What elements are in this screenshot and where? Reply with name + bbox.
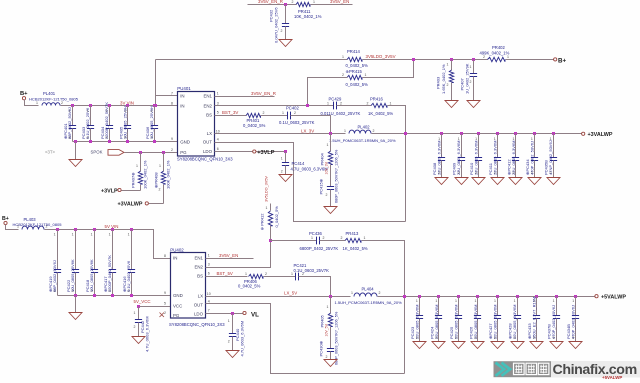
watermark badge gray: [494, 361, 552, 377]
svg-text:2: 2: [281, 29, 283, 33]
junction lower output cap top: [457, 295, 460, 298]
svg-text:0_0402_5%: 0_0402_5%: [346, 63, 369, 68]
svg-text:BS: BS: [197, 274, 203, 279]
svg-text:5V_VCC: 5V_VCC: [134, 299, 151, 304]
svg-text:2: 2: [106, 135, 108, 139]
svg-text:1: 1: [327, 101, 329, 105]
svg-text:+3VLP: +3VLP: [101, 188, 118, 194]
capacitor PC422 wire top: [75, 230, 77, 270]
capacitor PC434 wire bottom: [534, 161, 536, 178]
svg-text:1: 1: [327, 305, 329, 309]
capacitor PC415 plates: [327, 187, 334, 190]
svg-text:1: 1: [416, 299, 418, 303]
junction lower output cap top: [476, 295, 479, 298]
svg-text:BS: BS: [206, 113, 212, 118]
junction output cap top: [552, 132, 555, 135]
junction gnd bus: [108, 140, 111, 143]
svg-text:3: 3: [208, 263, 210, 267]
junction lower gnd bus: [74, 294, 77, 297]
svg-text:B+: B+: [20, 91, 28, 97]
capacitor PC433: [533, 316, 540, 319]
wire PC421 to LX node lower: [299, 277, 331, 297]
wire EN1 PU401: [215, 96, 275, 98]
capacitor PC403: [87, 126, 94, 129]
svg-text:10: 10: [207, 292, 211, 296]
junction PR408 top: [162, 151, 165, 154]
junction gnd bus: [126, 140, 129, 143]
svg-text:1: 1: [36, 101, 38, 105]
svg-text:470P_0402_50V6J: 470P_0402_50V6J: [551, 305, 556, 339]
svg-text:2: 2: [514, 336, 516, 340]
capacitor PC435B: [550, 158, 557, 161]
capacitor PC408 wire top: [441, 134, 443, 158]
svg-text:5: 5: [217, 111, 219, 115]
svg-text:1: 1: [514, 299, 516, 303]
svg-text:LX: LX: [198, 294, 203, 299]
svg-text:HCB2012KF-121T50_0805: HCB2012KF-121T50_0805: [29, 97, 79, 102]
ground PC440: [226, 351, 239, 358]
capacitor PC434B wire bottom: [575, 319, 577, 342]
capacitor PC417: [109, 270, 116, 273]
wire LX PU402 to PL404: [206, 296, 351, 298]
capacitor PC423: [416, 316, 423, 319]
svg-text:1K_0402_5%: 1K_0402_5%: [343, 246, 368, 251]
capacitor PC424 wire top: [438, 297, 440, 316]
svg-text:22U_0805_6.3V6M: 22U_0805_6.3V6M: [437, 141, 442, 175]
svg-text:1: 1: [128, 233, 130, 237]
svg-text:2200P_0402_50V7K: 2200P_0402_50V7K: [107, 255, 112, 292]
svg-text:IN: IN: [180, 104, 184, 109]
wire OUT loop PU402: [206, 304, 405, 374]
svg-text:2: 2: [323, 236, 325, 240]
wire EN2 PU401 feedback: [215, 105, 334, 107]
svg-text:2: 2: [263, 111, 265, 115]
svg-text:1: 1: [87, 109, 89, 113]
capacitor PC434B wire top: [575, 297, 577, 316]
terminal circle +3VALWP left: [145, 202, 148, 205]
resistor PR406: [249, 274, 264, 278]
capacitor PC412 wire top: [515, 134, 517, 158]
terminal circle VL: [243, 311, 246, 314]
watermark panel light: [551, 361, 640, 378]
wire 5VALWP output bus: [378, 296, 596, 298]
capacitor PC416: [128, 270, 135, 273]
capacitor PC436 plates: [317, 237, 320, 245]
capacitor PC426: [474, 316, 481, 319]
capacitor PC401 wire top: [72, 106, 74, 126]
capacitor PC426 wire bottom: [477, 319, 479, 342]
ground PC412: [509, 178, 522, 185]
capacitor PC419 wire bottom: [57, 273, 59, 296]
capacitor PC408 wire bottom: [441, 161, 443, 178]
resistor PR405: [328, 313, 332, 327]
junction output cap top: [496, 132, 499, 135]
svg-text:1: 1: [124, 109, 126, 113]
svg-text:1: 1: [136, 164, 138, 168]
svg-text:8: 8: [164, 254, 166, 258]
svg-text:2: 2: [326, 355, 328, 359]
junction lower gnd bus: [93, 294, 96, 297]
wire OUT loop PU401: [215, 143, 406, 222]
wire bus down to IN: [155, 60, 157, 106]
wire top bus left segment: [156, 59, 348, 61]
resistor PR412: [268, 211, 272, 226]
wire PC414 bottom: [285, 166, 287, 175]
ground PC410: [472, 178, 485, 185]
junction lower input cap top: [111, 228, 114, 231]
capacitor PC401: [69, 126, 76, 129]
svg-text:2: 2: [124, 135, 126, 139]
ground PC409: [455, 178, 468, 185]
svg-text:1: 1: [69, 109, 71, 113]
svg-text:2: 2: [87, 135, 89, 139]
svg-text:22U_0805_6.3V6M: 22U_0805_6.3V6M: [434, 305, 439, 339]
capacitor PC435B wire top: [553, 134, 555, 158]
svg-text:PR413: PR413: [346, 231, 359, 236]
svg-text:2: 2: [109, 289, 111, 293]
terminal circle +5VALWP: [595, 295, 598, 298]
svg-text:1: 1: [550, 137, 552, 141]
wire PC432 bottom: [285, 27, 287, 40]
svg-text:100K_0402_1%: 100K_0402_1%: [143, 160, 148, 189]
wire PC442 top: [138, 307, 140, 320]
wire 5V VIN bus to IN: [45, 230, 171, 259]
svg-text:+3VALWP: +3VALWP: [588, 132, 613, 138]
svg-text:PR414: PR414: [347, 49, 360, 54]
svg-text:2: 2: [475, 171, 477, 175]
wire BS PU401: [215, 115, 247, 117]
svg-text:2: 2: [265, 272, 267, 276]
svg-text:PU401: PU401: [177, 86, 191, 91]
junction lower input cap top: [56, 228, 59, 231]
wire PR413 to output node: [362, 241, 405, 374]
ground PC433: [530, 342, 543, 349]
junction lower output cap top: [535, 295, 538, 298]
svg-text:1: 1: [313, 0, 315, 4]
svg-text:0.047U_0402_25V6: 0.047U_0402_25V6: [274, 7, 279, 43]
svg-text:BST_5V: BST_5V: [217, 271, 233, 276]
terminal circle B+ bottom: [4, 221, 7, 224]
wire PC429 to PR416: [337, 105, 372, 107]
svg-text:2: 2: [533, 336, 535, 340]
svg-text:88P_0402_50V6J: 88P_0402_50V6J: [52, 260, 57, 292]
svg-text:2: 2: [326, 193, 328, 197]
capacitor PC412: [512, 158, 519, 161]
wire PR403 bottom: [451, 83, 453, 101]
capacitor PC406: [151, 126, 158, 129]
watermark chevron: [496, 363, 505, 376]
svg-text:680P_0603_50V7K7_1206_5%: 680P_0603_50V7K7_1206_5%: [335, 149, 339, 203]
svg-text:2: 2: [455, 336, 457, 340]
svg-text:0_0402_5%: 0_0402_5%: [243, 123, 266, 128]
port SPOK: [108, 150, 124, 156]
svg-text:0_0402_5%: 0_0402_5%: [238, 283, 261, 288]
svg-text:IN: IN: [173, 256, 177, 261]
svg-text:2: 2: [379, 291, 381, 295]
svg-text:2: 2: [483, 55, 485, 59]
svg-text:SY8208BCQNC_QFN10_3X3: SY8208BCQNC_QFN10_3X3: [169, 322, 225, 327]
resistor PR414 body: [347, 57, 362, 61]
svg-text:2: 2: [151, 135, 153, 139]
svg-text:680P_0603_50V7K7_1206_5%: 680P_0603_50V7K7_1206_5%: [335, 311, 339, 365]
wire snubber lower mid: [330, 327, 332, 349]
capacitor PC434: [531, 158, 538, 161]
svg-text:1: 1: [364, 236, 366, 240]
svg-text:1: 1: [311, 236, 313, 240]
junction input cap PC401 top: [71, 104, 74, 107]
wire 3VALWP output bus: [372, 133, 582, 135]
capacitor PC406 wire top: [154, 106, 156, 126]
wire PR402 to B+: [506, 59, 554, 61]
op-amp U2 regulator PU402: [171, 253, 206, 319]
svg-text:1: 1: [455, 299, 457, 303]
ground PC434B: [569, 342, 582, 349]
svg-text:2: 2: [367, 101, 369, 105]
junction lower input cap top: [93, 228, 96, 231]
wire 3V5V_EN_R to PR411: [248, 4, 297, 6]
capacitor PC418 wire bottom: [94, 273, 96, 296]
svg-text:⊕PR415: ⊕PR415: [346, 69, 363, 74]
svg-text:100K_0402_1%: 100K_0402_1%: [166, 160, 171, 189]
ground PC427: [491, 342, 504, 349]
wire snubber top: [330, 134, 332, 152]
capacitor PC427: [494, 316, 501, 319]
svg-text:7: 7: [171, 91, 173, 95]
capacitor PC405 wire bottom: [127, 129, 129, 142]
ground PC407: [467, 101, 480, 108]
wire to lower ground: [75, 296, 77, 313]
svg-text:2: 2: [438, 171, 440, 175]
capacitor PC409 wire bottom: [461, 161, 463, 178]
capacitor PC435B wire bottom: [553, 161, 555, 178]
capacitor PC429 plates: [334, 102, 337, 110]
ground PC411: [491, 178, 504, 185]
inductor PL401: [42, 103, 60, 106]
junction lower output cap top: [555, 295, 558, 298]
svg-text:VL: VL: [251, 311, 259, 318]
svg-text:<3T>: <3T>: [45, 150, 56, 155]
svg-text:0_0402_5%: 0_0402_5%: [346, 82, 369, 87]
svg-text:2: 2: [494, 171, 496, 175]
inductor PL403: [22, 226, 44, 229]
wire LDO PU401: [215, 151, 286, 153]
wire PC440 bottom: [232, 337, 234, 351]
svg-text:470P_0402_50V6J: 470P_0402_50V6J: [529, 141, 534, 175]
wire BS PU402: [206, 276, 248, 278]
svg-text:PU402: PU402: [170, 248, 184, 253]
wire PR407 bottom: [140, 185, 142, 191]
svg-text:LX_5V: LX_5V: [284, 291, 297, 296]
svg-text:B+: B+: [2, 216, 9, 222]
svg-text:2: 2: [550, 171, 552, 175]
junction PR407 top: [139, 151, 142, 154]
svg-text:2: 2: [340, 101, 342, 105]
capacitor PC405 wire top: [127, 106, 129, 126]
resistor PR408: [161, 171, 165, 184]
wire snubber bottom: [330, 190, 332, 207]
svg-text:PL404: PL404: [362, 287, 375, 292]
svg-text:+5VALWP: +5VALWP: [602, 375, 622, 380]
capacitor PC404: [106, 126, 113, 129]
ground PR403: [445, 101, 458, 108]
capacitor PC409 wire top: [461, 134, 463, 158]
capacitor PC430 plates: [327, 349, 334, 352]
capacitor PC428: [514, 316, 521, 319]
svg-text:3V5V_EN_R: 3V5V_EN_R: [251, 91, 276, 96]
capacitor PC423 wire top: [419, 297, 421, 316]
wire EN1 PU402: [206, 258, 254, 260]
svg-text:PR416: PR416: [370, 96, 383, 101]
svg-text:2: 2: [69, 135, 71, 139]
wire PC407 bottom: [473, 77, 475, 101]
junction input cap PC406 top: [153, 104, 156, 107]
svg-text:1.65K_0402_1%: 1.65K_0402_1%: [441, 64, 446, 94]
svg-text:3V5V_EN: 3V5V_EN: [219, 253, 238, 258]
svg-text:1U_0402_25V9K: 1U_0402_25V9K: [465, 63, 470, 94]
wire PR401 to PC402: [261, 115, 288, 117]
svg-text:22U_0805_6.3V6M: 22U_0805_6.3V6M: [474, 141, 479, 175]
capacitor PC410: [475, 158, 482, 161]
svg-text:EN2: EN2: [203, 104, 212, 109]
wire B+ to PL403: [6, 225, 19, 230]
junction output cap top: [440, 132, 443, 135]
capacitor PC437B wire top: [556, 297, 558, 316]
capacitor PC424: [435, 316, 442, 319]
svg-text:2: 2: [134, 325, 136, 329]
terminal circle +3VLP left: [118, 188, 121, 191]
svg-text:1: 1: [266, 206, 268, 210]
svg-text:1: 1: [151, 109, 153, 113]
svg-text:1: 1: [342, 55, 344, 59]
svg-text:2: 2: [435, 336, 437, 340]
svg-text:3V5LDO_3V5V: 3V5LDO_3V5V: [265, 176, 269, 202]
wire to ground: [75, 142, 77, 160]
wire PR416 to output node: [388, 106, 406, 222]
junction PC442 tap: [137, 305, 140, 308]
svg-text:1: 1: [281, 157, 283, 161]
svg-text:1: 1: [475, 299, 477, 303]
ground lower input caps: [69, 313, 82, 320]
wire PR407 top: [140, 153, 142, 172]
svg-text:1: 1: [109, 233, 111, 237]
svg-text:1: 1: [553, 299, 555, 303]
capacitor PC425: [455, 316, 462, 319]
svg-text:1.5UH_PCMC063T-1R5MN_9A_20%: 1.5UH_PCMC063T-1R5MN_9A_20%: [335, 300, 403, 305]
svg-text:1: 1: [458, 137, 460, 141]
wire PC442 bottom: [138, 323, 140, 337]
junction input cap PC404 top: [108, 104, 111, 107]
wire PR408 top: [163, 153, 165, 172]
svg-text:PG: PG: [173, 313, 180, 318]
svg-text:22U_0805_6.3V6M: 22U_0805_6.3V6M: [492, 141, 497, 175]
junction input cap PC405 top: [126, 104, 129, 107]
svg-text:2200P_0402_50V7K: 2200P_0402_50V7K: [104, 102, 109, 139]
svg-text:6: 6: [217, 147, 219, 151]
svg-text:2: 2: [292, 0, 294, 4]
wire PR415 right to bus: [363, 60, 414, 78]
wire PR406 to PC421: [264, 276, 296, 278]
svg-text:1: 1: [435, 299, 437, 303]
svg-text:1: 1: [513, 137, 515, 141]
svg-text:10V_5V: 10V_5V: [325, 323, 329, 336]
svg-text:2: 2: [228, 340, 230, 344]
svg-text:3V5V_EN_R: 3V5V_EN_R: [258, 0, 283, 4]
ground PC435B: [547, 178, 560, 185]
svg-text:1: 1: [282, 111, 284, 115]
svg-text:2: 2: [572, 336, 574, 340]
capacitor PC406 wire bottom: [154, 129, 156, 142]
svg-text:1: 1: [91, 233, 93, 237]
svg-text:1: 1: [228, 319, 230, 323]
svg-text:2: 2: [470, 80, 472, 84]
svg-text:2: 2: [171, 148, 173, 152]
wire VCC PU402: [139, 306, 171, 308]
wire pin7 stub: [156, 95, 178, 97]
junction lower gnd bus: [111, 294, 114, 297]
svg-text:4: 4: [208, 299, 210, 303]
ground PC423: [413, 342, 426, 349]
capacitor PC412 wire bottom: [515, 161, 517, 178]
capacitor PC434B: [572, 316, 579, 319]
wire PR403 top: [451, 60, 453, 71]
wire PC402 to LX node: [291, 116, 331, 134]
capacitor PC417 wire bottom: [112, 273, 114, 296]
svg-text:GND: GND: [180, 139, 190, 144]
svg-text:2: 2: [164, 311, 166, 315]
svg-text:1: 1: [351, 291, 353, 295]
svg-text:9: 9: [164, 291, 166, 295]
capacitor PC416 wire top: [131, 230, 133, 270]
wire PR415 left to EN2 node: [308, 78, 348, 106]
capacitor PC422 wire bottom: [75, 273, 77, 296]
junction PR403 top: [450, 58, 453, 61]
capacitor PC428 wire top: [517, 297, 519, 316]
svg-text:0.011U_0402_25V7K: 0.011U_0402_25V7K: [321, 111, 361, 116]
wire PC407 top: [473, 60, 475, 74]
svg-text:PC430⊕: PC430⊕: [319, 341, 324, 357]
capacitor PC419: [54, 270, 61, 273]
svg-text:1: 1: [507, 55, 509, 59]
junction output cap top: [533, 132, 536, 135]
junction gnd bus: [89, 140, 92, 143]
ground PC426: [471, 342, 484, 349]
svg-text:8: 8: [171, 102, 173, 106]
svg-text:1: 1: [54, 233, 56, 237]
capacitor PC401 wire bottom: [72, 129, 74, 142]
svg-text:0_0402_5%: 0_0402_5%: [274, 206, 279, 228]
capacitor PC427 wire bottom: [497, 319, 499, 342]
svg-text:1: 1: [344, 129, 346, 133]
junction PC440 tap: [231, 312, 234, 315]
junction output cap top: [514, 132, 517, 135]
ground snubber upper: [324, 207, 337, 214]
svg-text:EN1: EN1: [203, 93, 212, 98]
svg-text:BST_3V: BST_3V: [222, 110, 238, 115]
resistor PR402 body: [488, 57, 506, 61]
svg-text:Chinafix.com: Chinafix.com: [553, 362, 637, 378]
svg-text:PR403: PR403: [436, 76, 441, 89]
wire 3V VIN bus: [61, 105, 178, 107]
junction PC407 top: [472, 58, 475, 61]
svg-text:22U_0805_6.3V6M: 22U_0805_6.3V6M: [473, 305, 478, 339]
junction PC414 tap: [284, 150, 287, 153]
svg-text:1.5UH_P0MC063T-1R5MN_9A_20%: 1.5UH_P0MC063T-1R5MN_9A_20%: [329, 138, 396, 143]
junction output cap top: [477, 132, 480, 135]
resistor PR404: [328, 151, 332, 165]
svg-text:2: 2: [341, 236, 343, 240]
wire PC440 top: [232, 314, 234, 334]
svg-text:2: 2: [281, 170, 283, 174]
